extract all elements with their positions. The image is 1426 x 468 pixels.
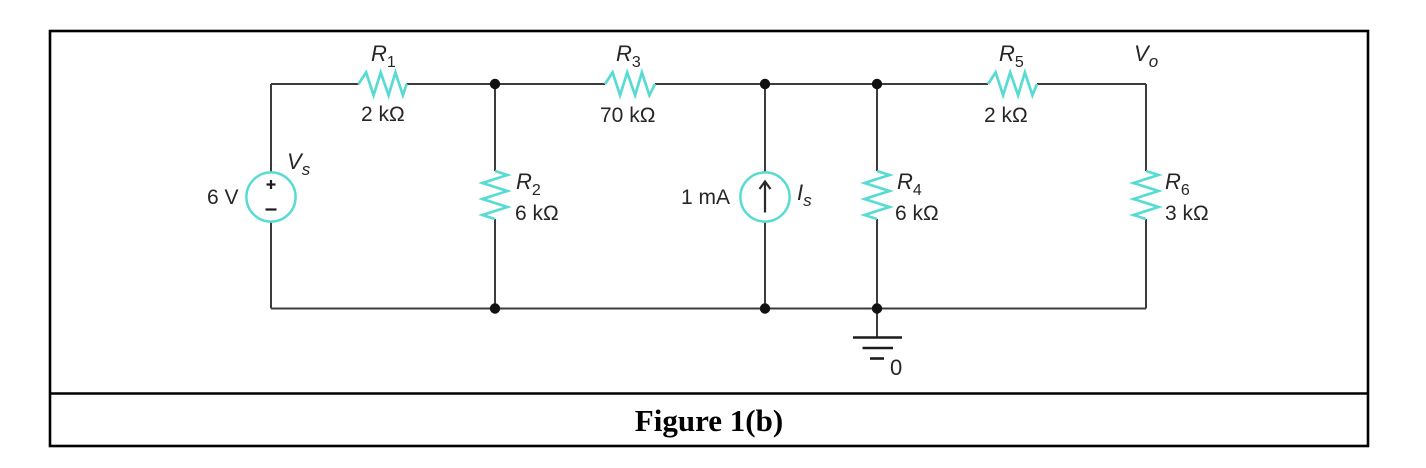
svg-text:Vo: Vo (1134, 41, 1158, 71)
svg-text:2 kΩ: 2 kΩ (984, 104, 1028, 127)
svg-text:70 kΩ: 70 kΩ (600, 104, 655, 127)
svg-text:R2: R2 (516, 169, 541, 199)
svg-text:6 kΩ: 6 kΩ (515, 202, 559, 225)
svg-text:6 kΩ: 6 kΩ (895, 202, 939, 225)
svg-text:R5: R5 (999, 41, 1024, 71)
svg-text:Is: Is (797, 180, 812, 210)
svg-text:0: 0 (890, 355, 902, 380)
svg-text:R4: R4 (897, 169, 922, 199)
svg-text:R1: R1 (371, 41, 396, 71)
svg-text:6 V: 6 V (207, 186, 239, 209)
svg-text:1 mA: 1 mA (681, 186, 730, 209)
svg-text:R6: R6 (1165, 169, 1190, 199)
svg-text:Figure 1(b): Figure 1(b) (635, 403, 783, 438)
svg-text:R3: R3 (616, 41, 641, 71)
svg-text:2 kΩ: 2 kΩ (361, 103, 405, 126)
svg-text:Vs: Vs (287, 149, 311, 179)
svg-text:3 kΩ: 3 kΩ (1165, 202, 1209, 225)
